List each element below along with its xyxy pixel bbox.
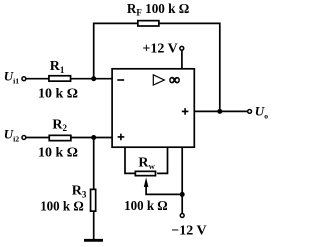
svg-text:100 k Ω: 100 k Ω — [40, 199, 84, 214]
svg-text:+12 V: +12 V — [142, 42, 177, 57]
svg-text:10 k Ω: 10 k Ω — [38, 87, 78, 102]
svg-text:100 k Ω: 100 k Ω — [124, 199, 168, 214]
svg-text:10 k Ω: 10 k Ω — [38, 146, 78, 161]
svg-text:RF 100 k Ω: RF 100 k Ω — [127, 2, 189, 19]
svg-text:∞: ∞ — [169, 72, 180, 88]
svg-text:−12 V: −12 V — [171, 224, 206, 239]
